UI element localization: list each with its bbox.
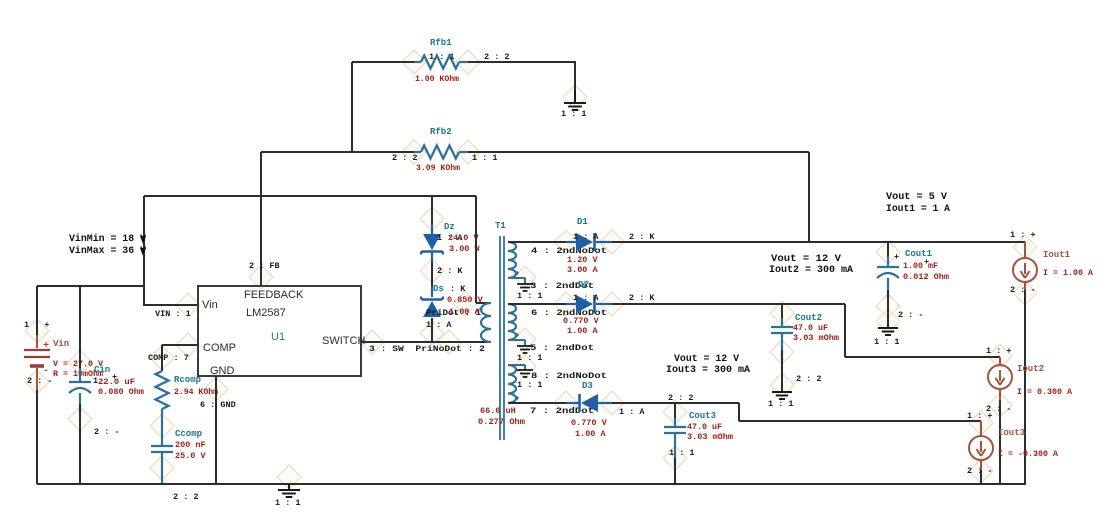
wire secondary A to ground	[508, 277, 525, 279]
svg-text:Iout3: Iout3	[998, 428, 1025, 438]
capacitor Cout1	[877, 242, 899, 327]
node marker at capacitor Cin (1)	[68, 407, 92, 431]
current source Iout1	[1013, 258, 1037, 282]
svg-text:Iout3 = 300 mA: Iout3 = 300 mA	[666, 365, 750, 376]
ground secondary B	[517, 346, 533, 353]
svg-text:I = 1.00 A: I = 1.00 A	[1043, 268, 1094, 278]
wire Rfb1 top net	[352, 61, 414, 63]
wire output 3 from secondary C	[508, 402, 566, 404]
svg-text:1 : 1: 1 : 1	[517, 380, 543, 390]
node marker at capacitor Cout1 (0)	[876, 240, 900, 264]
svg-text:Rfb1: Rfb1	[430, 38, 452, 48]
svg-text:Cout3: Cout3	[689, 411, 716, 421]
svg-text:FEEDBACK: FEEDBACK	[244, 289, 304, 301]
svg-text:2 : K: 2 : K	[629, 293, 655, 303]
ground under Cout2	[772, 392, 792, 399]
svg-text:1.00 KOhm: 1.00 KOhm	[415, 74, 459, 84]
svg-text:3.00 A: 3.00 A	[567, 265, 599, 275]
node marker at ground secondary A (0)	[514, 266, 536, 288]
svg-text:D1: D1	[577, 217, 588, 227]
svg-text:1 : 1: 1 : 1	[517, 353, 543, 363]
node marker at node Iout1 bottom diamond (0)	[1013, 281, 1037, 305]
wire Rfb2 right to output rail	[468, 151, 809, 153]
svg-text:2 : K: 2 : K	[437, 266, 463, 276]
wire PriDot vertical	[475, 196, 477, 303]
svg-text:Cin: Cin	[94, 365, 110, 375]
svg-text:D2: D2	[578, 280, 589, 290]
node marker at node FB diamond (0)	[249, 265, 273, 289]
node marker at voltage source Vin battery (0)	[25, 319, 49, 343]
svg-text:1 : +: 1 : +	[986, 346, 1012, 356]
ground under Cout1	[878, 328, 898, 335]
svg-text:VinMax = 36 V: VinMax = 36 V	[69, 245, 146, 257]
svg-text:2 : -: 2 : -	[1010, 285, 1036, 295]
svg-text:1 : 1: 1 : 1	[517, 291, 543, 301]
node marker at node Iout1 top diamond (0)	[1013, 235, 1037, 259]
U1 LM2587 body	[198, 286, 361, 376]
svg-text:1 : 1: 1 : 1	[561, 109, 587, 119]
node marker at resistor Rfb1 (0)	[402, 50, 426, 74]
svg-text:T1: T1	[495, 221, 506, 231]
svg-text:25.0 V: 25.0 V	[175, 451, 207, 461]
wire Iout2 top lead	[999, 357, 1001, 365]
node marker at diode D1 (0)	[554, 230, 578, 254]
svg-text:1 : 1: 1 : 1	[429, 52, 455, 62]
svg-text:1.20 V: 1.20 V	[567, 255, 599, 265]
node marker at ground under Rfb1 (0)	[563, 85, 587, 109]
node marker at ground under Cout1 (0)	[876, 309, 900, 333]
wire output rail 12V	[612, 303, 845, 305]
svg-text:7 : 2ndDot: 7 : 2ndDot	[530, 406, 594, 416]
wire output rail -12V	[612, 402, 739, 404]
node marker at resistor Rcomp (1)	[150, 414, 174, 438]
wire output 1 from secondary A	[508, 241, 566, 243]
node marker at capacitor Cout3 (1)	[663, 446, 687, 470]
svg-text:SWITCH: SWITCH	[322, 335, 365, 347]
svg-text:+: +	[924, 257, 929, 267]
wire Iout1 bottom to ground rail	[1024, 282, 1026, 297]
svg-text:Rfb2: Rfb2	[430, 127, 452, 137]
svg-text:+: +	[894, 252, 899, 262]
svg-text:Vin: Vin	[202, 299, 218, 311]
svg-text:VinMin = 18 V: VinMin = 18 V	[69, 233, 146, 245]
svg-text:2 : 2: 2 : 2	[484, 52, 510, 62]
svg-text:1 : 1: 1 : 1	[472, 153, 498, 163]
svg-text:+: +	[43, 341, 49, 352]
svg-text:3.09 KOhm: 3.09 KOhm	[416, 163, 460, 173]
node marker at node Iout2 top diamond (0)	[988, 344, 1012, 368]
node marker at ground secondary B (0)	[514, 328, 536, 350]
wire COMP to Rcomp	[162, 344, 198, 346]
svg-text:66.6 uH: 66.6 uH	[480, 406, 516, 416]
svg-text:2 : -: 2 : -	[898, 310, 924, 320]
node marker at diode D2 (1)	[600, 292, 624, 316]
node marker at node Dz-Ds diamond (0)	[420, 259, 444, 283]
node marker at diode D3 (0)	[554, 391, 578, 415]
svg-text:D3: D3	[582, 381, 593, 391]
svg-text:Iout2: Iout2	[1017, 364, 1044, 374]
svg-text:1 : A: 1 : A	[573, 293, 599, 303]
node marker at diode D2 (0)	[554, 292, 578, 316]
svg-text:24.0 V: 24.0 V	[448, 233, 480, 243]
svg-text:6 : GND: 6 : GND	[200, 400, 236, 410]
zener diode Dz	[421, 196, 443, 262]
svg-text:1 : 1: 1 : 1	[768, 399, 794, 409]
svg-text:2 : 2: 2 : 2	[668, 393, 694, 403]
transformer T1 core	[500, 236, 504, 440]
transformer T1 secondary winding A	[508, 242, 516, 278]
svg-text:Vout = 12 V: Vout = 12 V	[771, 254, 841, 265]
wire output 2 from secondary B	[508, 303, 566, 305]
probe arrow VinMin	[140, 236, 146, 244]
resistor Rfb1	[414, 56, 468, 69]
wire output rail 5V	[612, 241, 1025, 243]
wire VIN rail	[144, 195, 476, 197]
wire FB vertical to U1	[260, 152, 262, 286]
node marker at node Iout3 top diamond (0)	[969, 411, 993, 435]
node marker at node Iout3 bottom diamond (0)	[969, 459, 993, 483]
svg-text:COMP: COMP	[203, 342, 236, 354]
node marker at ground main (0)	[277, 465, 301, 489]
schottky diode Ds	[421, 286, 443, 342]
ground secondary C	[517, 370, 533, 377]
transformer T1 secondary winding C	[508, 365, 516, 403]
node marker at ground secondary C (0)	[514, 355, 536, 377]
svg-text:Rcomp: Rcomp	[174, 375, 201, 385]
svg-text:Cout2: Cout2	[795, 313, 822, 323]
svg-text:Vout = 12 V: Vout = 12 V	[674, 354, 739, 365]
svg-text:2 : FB: 2 : FB	[249, 261, 280, 271]
ground under Rfb1	[564, 90, 586, 110]
svg-text:I = -0.300 A: I = -0.300 A	[998, 449, 1059, 459]
wire U1 GND to ground rail	[215, 376, 217, 484]
svg-text:Ccomp: Ccomp	[175, 429, 202, 439]
capacitor Cin	[69, 286, 91, 484]
node marker at capacitor Cout2 (1)	[770, 340, 794, 364]
node marker at zener diode Dz (0)	[420, 207, 444, 231]
svg-text:2 : K: 2 : K	[629, 232, 655, 242]
svg-text:3.03 mOhm: 3.03 mOhm	[687, 432, 733, 442]
wire Rfb1 left vertical from Rfb2 node	[351, 62, 353, 152]
svg-text:0.770 V: 0.770 V	[563, 316, 600, 326]
svg-text:Vout = 5 V: Vout = 5 V	[886, 192, 947, 203]
svg-text:2 : 2: 2 : 2	[173, 492, 199, 502]
svg-text:1.00 A: 1.00 A	[575, 429, 607, 439]
svg-text:Iout2 = 300 mA: Iout2 = 300 mA	[769, 265, 853, 276]
node marker at resistor Rfb1 (1)	[456, 50, 480, 74]
wire Iout2 bottom to ground rail	[999, 389, 1001, 404]
node marker at capacitor Cin (0)	[68, 350, 92, 374]
svg-text:47.0 uF: 47.0 uF	[793, 323, 828, 333]
current source Iout3	[969, 436, 993, 460]
resistor Rcomp	[156, 371, 169, 446]
svg-text:VIN : 1: VIN : 1	[155, 309, 191, 319]
svg-text:1.00 mF: 1.00 mF	[903, 261, 938, 271]
svg-text:2 : 2: 2 : 2	[392, 153, 418, 163]
svg-text:1.00 A: 1.00 A	[567, 326, 599, 336]
node marker at diode D1 (1)	[600, 230, 624, 254]
node marker at node Iout2 bottom diamond (0)	[988, 393, 1012, 417]
svg-text:1 : +: 1 : +	[1010, 230, 1036, 240]
node marker at node PriDot diamond (0)	[453, 291, 477, 315]
node marker at capacitor Cout2 (0)	[770, 301, 794, 325]
node marker at schottky diode Ds (0)	[420, 321, 444, 345]
node marker at node SWITCH diamond (0)	[360, 330, 384, 354]
capacitor Ccomp	[151, 446, 173, 484]
diode D1	[566, 233, 612, 251]
node marker at resistor Rfb2 (0)	[402, 140, 426, 164]
svg-text:GND: GND	[210, 365, 235, 377]
svg-text:COMP : 7: COMP : 7	[148, 353, 189, 363]
node marker at node PriNoDot diamond (0)	[437, 330, 461, 354]
node marker at node COMP diamond (0)	[176, 333, 200, 357]
svg-text:3.03 mOhm: 3.03 mOhm	[793, 333, 839, 343]
svg-text:1 : A: 1 : A	[573, 232, 599, 242]
svg-text:2 : -: 2 : -	[967, 466, 993, 476]
svg-text:22.0 uF: 22.0 uF	[98, 377, 135, 387]
node marker at capacitor Cout3 (0)	[663, 400, 687, 424]
transformer T1 secondary winding B	[508, 304, 516, 340]
svg-text:1 : +: 1 : +	[24, 320, 50, 330]
wire SWITCH to primary	[361, 341, 491, 343]
node marker at node VIN diamond (0)	[176, 293, 200, 317]
svg-text:1 : A: 1 : A	[619, 407, 645, 417]
voltage source Vin battery	[24, 286, 50, 484]
svg-text:Iout1 = 1 A: Iout1 = 1 A	[886, 204, 950, 215]
current source Iout2	[988, 365, 1012, 389]
node marker at voltage source Vin battery (1)	[25, 370, 49, 394]
diode D3	[566, 394, 612, 412]
svg-text:5 : 2ndDot: 5 : 2ndDot	[530, 343, 594, 353]
svg-text:1 : 1: 1 : 1	[275, 498, 301, 508]
svg-text:2 : 2: 2 : 2	[796, 374, 822, 384]
svg-text:1 : A: 1 : A	[426, 320, 452, 330]
svg-text:0.012 Ohm: 0.012 Ohm	[903, 272, 949, 282]
svg-text:1.00 A: 1.00 A	[449, 307, 481, 317]
svg-text:LM2587: LM2587	[246, 307, 286, 319]
svg-text:0.080 Ohm: 0.080 Ohm	[98, 387, 144, 397]
probe arrow VinMax	[140, 248, 146, 256]
svg-text:2.94 KOhm: 2.94 KOhm	[174, 387, 218, 397]
diode D2	[566, 295, 612, 313]
svg-text:: K: : K	[450, 284, 466, 294]
svg-text:0.277 Ohm: 0.277 Ohm	[478, 417, 525, 427]
svg-text:1 : +: 1 : +	[967, 411, 993, 421]
svg-text:Ds: Ds	[433, 284, 444, 294]
wire Iout3 top lead	[980, 421, 982, 436]
wire secondary B to ground	[508, 339, 525, 341]
svg-text:Vin: Vin	[53, 339, 69, 349]
node marker at capacitor Cout1 (1)	[876, 294, 900, 318]
node marker at capacitor Ccomp (0)	[150, 456, 174, 480]
wire Rfb1 right to ground	[468, 61, 576, 63]
svg-text:1 : 1: 1 : 1	[669, 448, 695, 458]
svg-text:200 nF: 200 nF	[175, 440, 206, 450]
wire Rfb2 net from FB node	[261, 151, 414, 153]
svg-text:0.770 V: 0.770 V	[571, 418, 608, 428]
wire ground rail bottom	[37, 483, 1026, 485]
ground secondary A	[517, 284, 533, 291]
svg-text:47.0 uF: 47.0 uF	[687, 422, 722, 432]
transformer T1 primary winding	[481, 303, 491, 342]
wire Iout3 bottom to ground rail	[980, 460, 982, 475]
node marker at resistor Rcomp (0)	[150, 346, 174, 370]
svg-text:I = 0.300 A: I = 0.300 A	[1017, 387, 1073, 397]
node marker at resistor Rfb2 (1)	[456, 140, 480, 164]
node marker at diode D3 (1)	[600, 391, 624, 415]
svg-text:Dz: Dz	[444, 222, 455, 232]
svg-text:U1: U1	[271, 331, 285, 343]
wire Iout1 top lead	[1024, 242, 1026, 258]
svg-text:1 : 1: 1 : 1	[874, 337, 900, 347]
node marker at ground under Cout2 (0)	[770, 373, 794, 397]
capacitor Cout3	[664, 403, 686, 484]
node marker at node GND diamond (0)	[204, 377, 228, 401]
T1 primary polarity dot	[479, 307, 482, 310]
svg-text:3 : SW PriNoDot : 2: 3 : SW PriNoDot : 2	[369, 344, 485, 354]
resistor Rfb2	[414, 146, 468, 159]
wire secondary C top to ground	[508, 364, 525, 366]
ground main	[278, 484, 300, 497]
wire Dz to Ds	[431, 262, 433, 296]
svg-text:2 : -: 2 : -	[94, 427, 120, 437]
wire battery top rail	[37, 285, 144, 287]
svg-text:Iout1: Iout1	[1043, 250, 1071, 260]
wire VIN vertical	[143, 196, 145, 306]
capacitor Cout2	[771, 304, 793, 391]
svg-text:2 : -: 2 : -	[27, 376, 53, 386]
wire VIN into U1	[144, 304, 198, 306]
